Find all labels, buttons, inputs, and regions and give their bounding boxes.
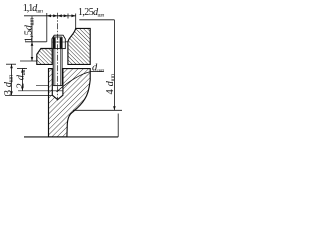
label 1,25d shp [78, 7, 104, 19]
left clamped flange plate (sectioned) [37, 49, 52, 65]
arrowhead of 4d dimension [113, 106, 116, 110]
thread bars inside nut [55, 38, 61, 49]
washer under nut [52, 42, 68, 49]
extension line left hole edge [46, 13, 48, 42]
top dimension line for 1,1d and 1,25d [24, 15, 76, 17]
label d shp [92, 62, 104, 74]
arrowheads of 3d dimension [10, 64, 13, 95]
right clamped flange plate with countersunk hole mouth (sectioned) [68, 28, 90, 64]
bottom flange of housing seen in view [24, 110, 122, 137]
label 3d shp rotated [3, 74, 15, 95]
dimension line 2d vertical [21, 69, 23, 91]
housing body (sectioned lower block with tapped stud hole and drill cone) [49, 69, 91, 137]
label 4d shp rotated [105, 73, 117, 94]
extension line bottom of 1,5d [20, 60, 37, 62]
tick on top dimension line [67, 14, 69, 19]
dimension line 1,5d vertical [31, 16, 33, 61]
stud shank walls [53, 37, 62, 86]
stud bottom end [53, 85, 62, 87]
thread end line across tapped hole [18, 90, 63, 92]
shelf line under label 1,25d [79, 19, 114, 21]
label 1,1d shp [23, 3, 43, 15]
extension line top of 2d [17, 68, 27, 70]
arrowheads of 2d dimension [21, 69, 24, 91]
label 1,5d shp rotated [24, 17, 36, 42]
dimension line 3d vertical [11, 64, 13, 95]
extension line right countersink edge [75, 14, 77, 29]
arrowheads of 1,1d dimension [47, 14, 58, 17]
leader line for d label [57, 72, 104, 92]
extension line washer top [25, 41, 47, 43]
extension line top of 3d [6, 63, 16, 65]
nut on stud (chamfered) [52, 35, 65, 42]
stud thread root lines [55, 38, 61, 86]
extension line stud end [36, 85, 49, 87]
stud centerline [57, 13, 59, 101]
arrowheads of 1,5d dimension [31, 42, 34, 61]
dimension line 4d vertical [113, 20, 115, 111]
extension line drill depth [5, 94, 52, 96]
label 2d shp rotated [15, 67, 27, 88]
arrowheads of 1,25d dimension [58, 14, 76, 17]
